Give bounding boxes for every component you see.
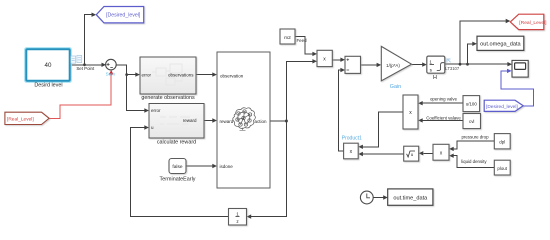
svg-text:plout: plout — [497, 166, 507, 171]
svg-text:1: 1 — [236, 212, 239, 217]
svg-text:dpl: dpl — [499, 139, 505, 144]
svg-text:1: 1 — [429, 59, 432, 64]
svg-text:opening valve: opening valve — [430, 97, 458, 102]
svg-text:TerminateEarly: TerminateEarly — [160, 177, 196, 183]
svg-text:error: error — [151, 108, 161, 113]
svg-text:1/(p*A): 1/(p*A) — [386, 63, 400, 68]
svg-text:Gain: Gain — [390, 84, 401, 90]
svg-text:Sum: Sum — [106, 71, 116, 76]
svg-text:action: action — [254, 119, 267, 124]
svg-text:reward: reward — [220, 119, 234, 124]
svg-text:out.omega_data: out.omega_data — [480, 42, 521, 48]
svg-text:cvl: cvl — [469, 119, 474, 124]
svg-text:Desird level: Desird level — [34, 83, 62, 89]
svg-text:liquid density: liquid density — [461, 159, 487, 164]
svg-text:[Real_Level]: [Real_Level] — [519, 20, 547, 26]
svg-text:false: false — [172, 164, 182, 170]
svg-text:m2: m2 — [284, 35, 291, 41]
svg-text:generate observations: generate observations — [141, 95, 195, 101]
svg-text:H: H — [433, 75, 437, 81]
svg-text:calculate reward: calculate reward — [157, 140, 196, 146]
svg-text:pressure drop: pressure drop — [461, 134, 489, 139]
svg-text:reward: reward — [183, 118, 197, 123]
svg-text:out.time_data: out.time_data — [393, 196, 428, 202]
svg-text:error: error — [142, 73, 152, 78]
svg-text:Product1: Product1 — [342, 136, 362, 142]
svg-text:isdone: isdone — [220, 164, 234, 169]
svg-text:u/100: u/100 — [466, 102, 478, 107]
svg-text:observations: observations — [168, 73, 194, 78]
svg-text:LT3107: LT3107 — [445, 66, 460, 71]
svg-text:Coefficient valave: Coefficient valave — [426, 115, 461, 120]
svg-text:observation: observation — [220, 73, 244, 78]
svg-text:Set Point: Set Point — [76, 66, 95, 71]
svg-text:[Real_Level]: [Real_Level] — [7, 116, 34, 122]
svg-text:[Desired_level]: [Desired_level] — [106, 13, 141, 19]
svg-text:Feed: Feed — [297, 38, 308, 43]
svg-text:40: 40 — [45, 62, 52, 69]
svg-text:[Desired_level]: [Desired_level] — [486, 104, 518, 110]
